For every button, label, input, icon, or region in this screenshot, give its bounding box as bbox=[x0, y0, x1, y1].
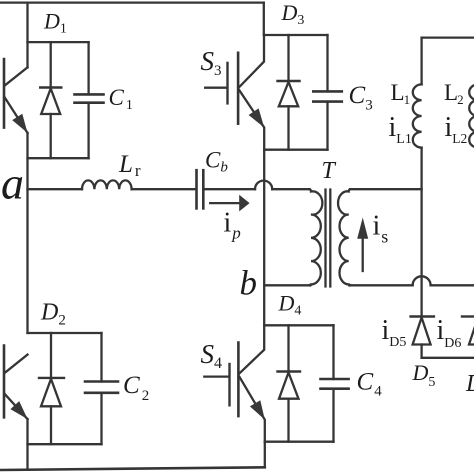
svg-text:L2: L2 bbox=[444, 80, 464, 107]
svg-text:Lr: Lr bbox=[118, 151, 141, 180]
svg-text:T: T bbox=[322, 158, 337, 184]
svg-text:C4: C4 bbox=[357, 369, 383, 400]
svg-text:D2: D2 bbox=[40, 300, 66, 329]
svg-text:iL1: iL1 bbox=[389, 112, 412, 147]
svg-text:D4: D4 bbox=[278, 291, 302, 319]
svg-text:iD6: iD6 bbox=[437, 315, 462, 351]
svg-text:D1: D1 bbox=[43, 9, 67, 37]
svg-text:Cb: Cb bbox=[205, 148, 228, 176]
svg-text:L1: L1 bbox=[391, 80, 411, 107]
svg-text:D6: D6 bbox=[465, 371, 474, 399]
svg-text:S4: S4 bbox=[201, 339, 223, 372]
svg-text:a: a bbox=[1, 158, 24, 209]
svg-text:is: is bbox=[373, 211, 389, 247]
svg-text:b: b bbox=[240, 264, 258, 303]
svg-text:C1: C1 bbox=[109, 85, 133, 113]
svg-text:C2: C2 bbox=[123, 372, 149, 404]
svg-text:ip: ip bbox=[224, 208, 241, 243]
svg-text:D3: D3 bbox=[281, 0, 305, 28]
svg-text:iL2: iL2 bbox=[445, 112, 468, 146]
svg-text:S3: S3 bbox=[201, 46, 222, 79]
svg-text:iD5: iD5 bbox=[382, 315, 407, 350]
svg-text:D5: D5 bbox=[412, 360, 436, 390]
svg-text:C3: C3 bbox=[349, 82, 373, 114]
